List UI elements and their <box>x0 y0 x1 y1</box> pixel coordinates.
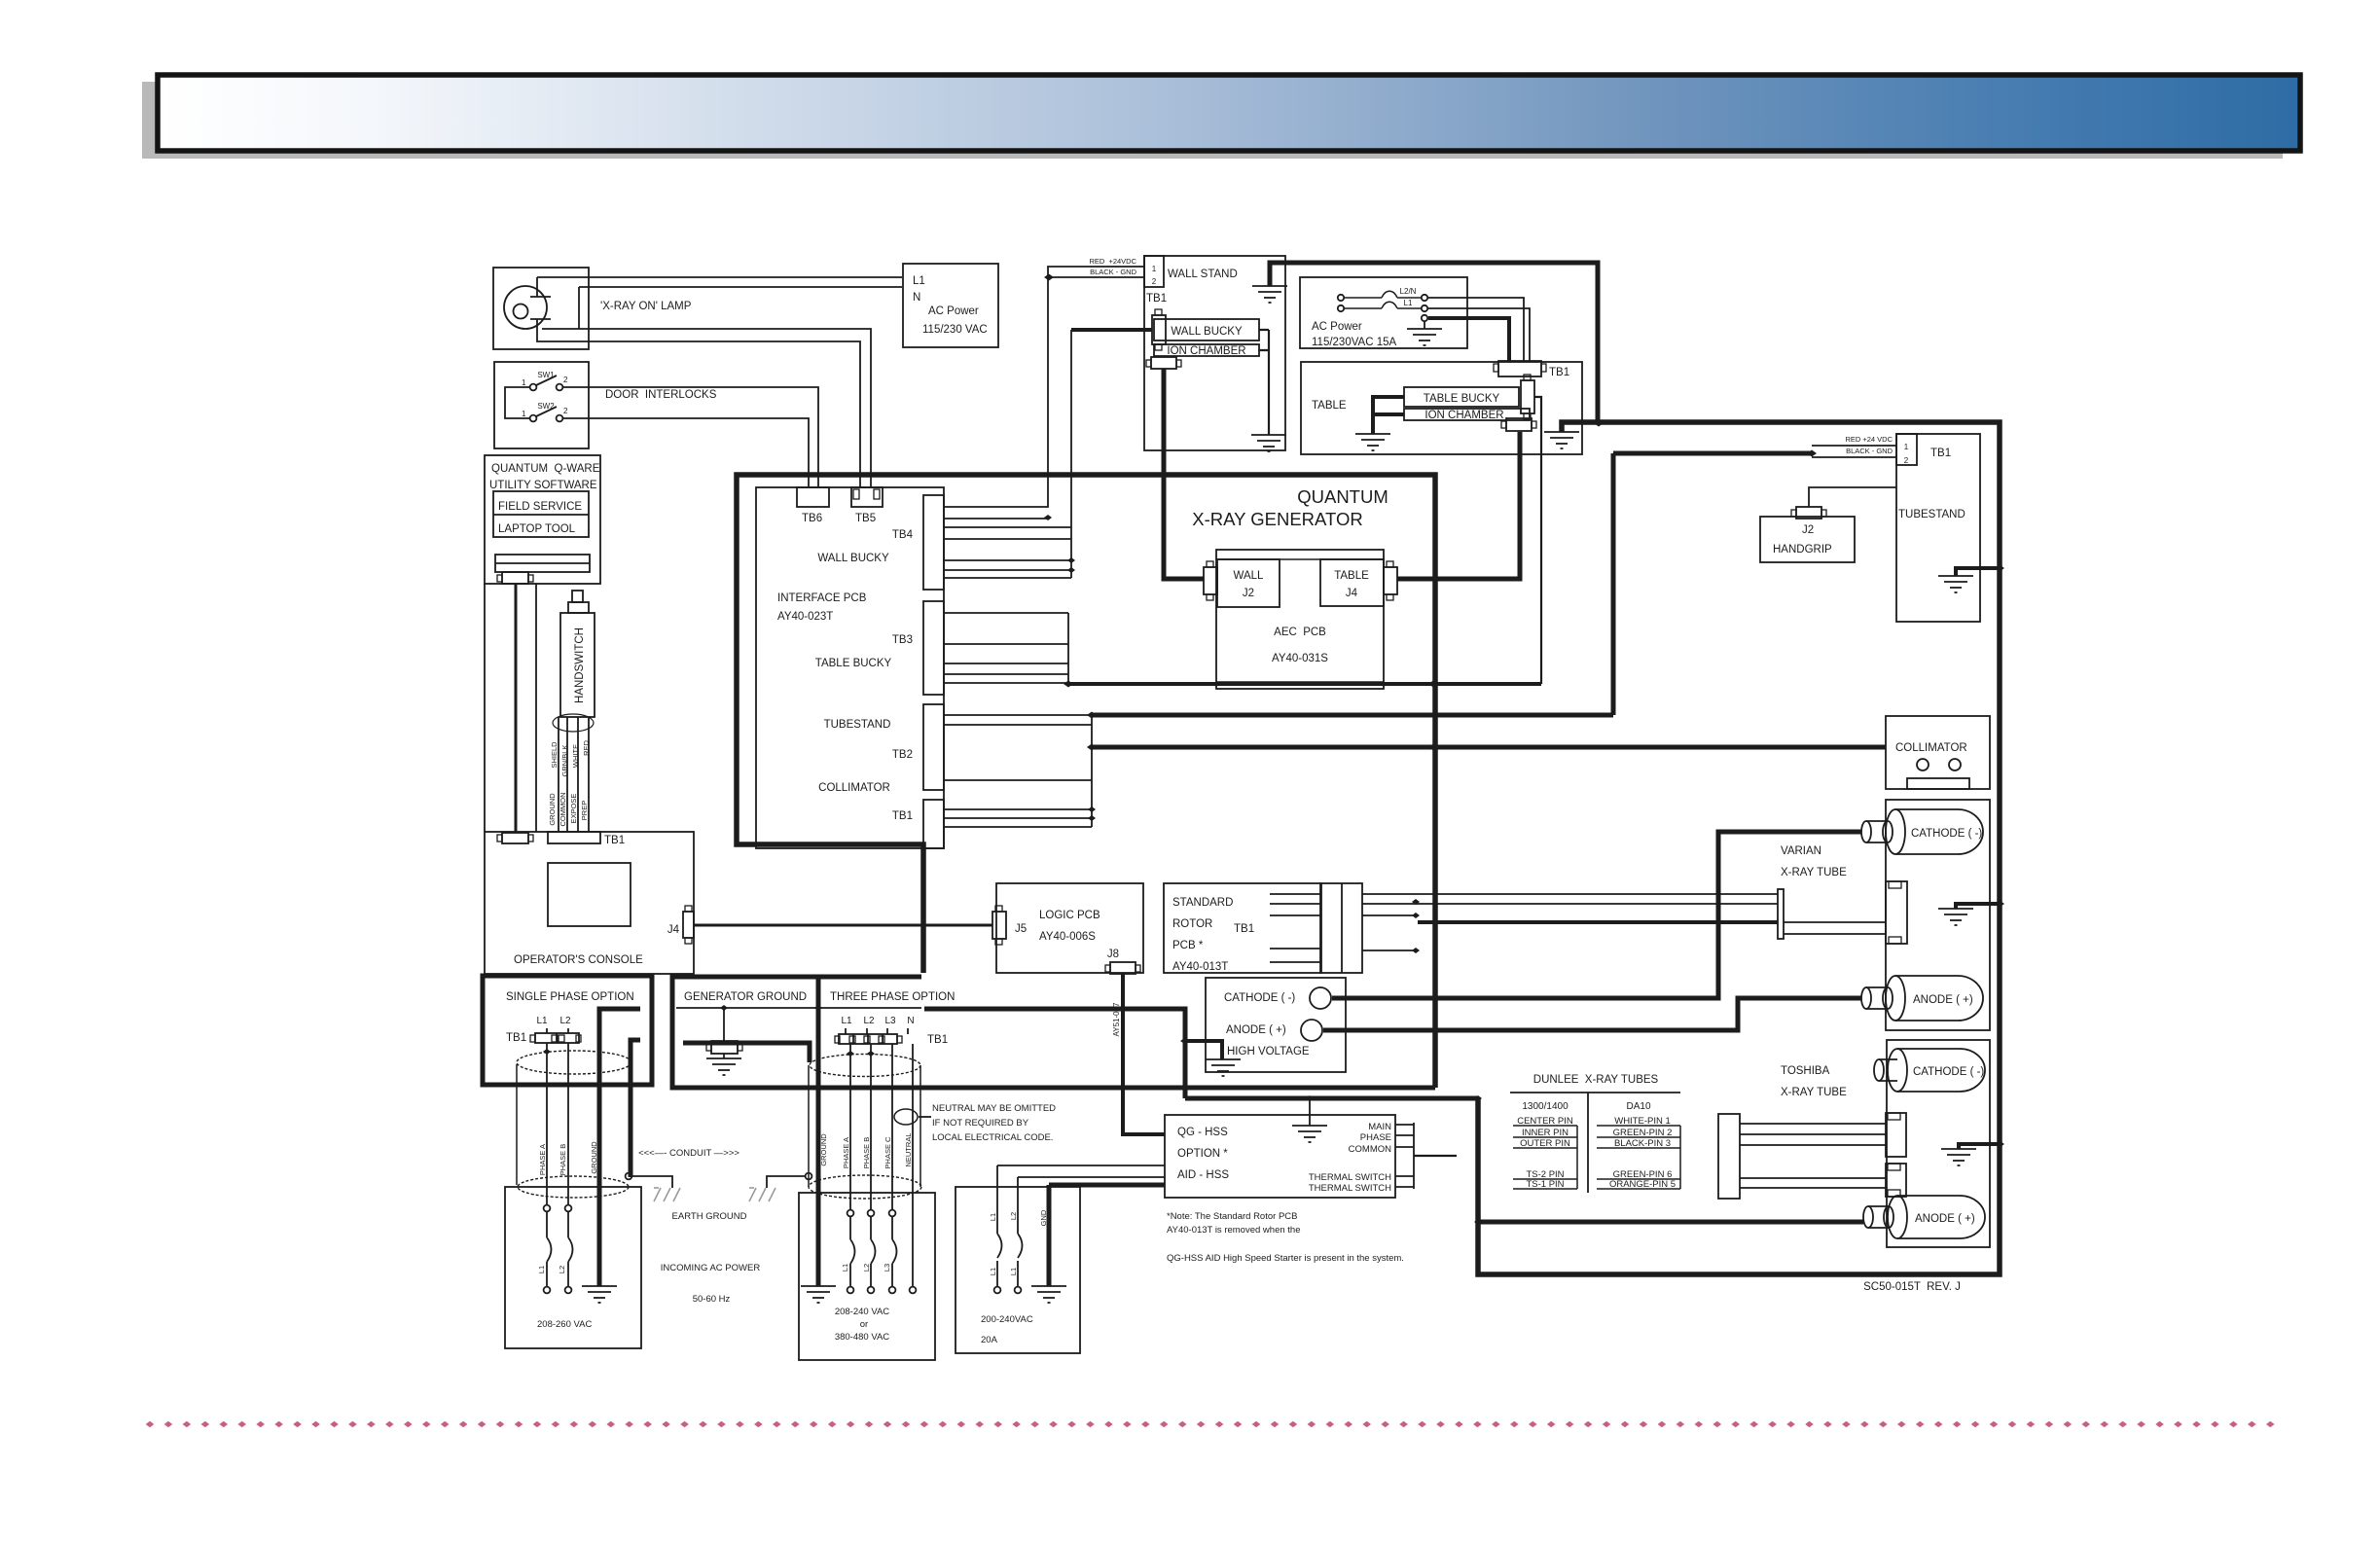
svg-text:L2/N: L2/N <box>1400 287 1417 296</box>
svg-text:ION CHAMBER: ION CHAMBER <box>1167 345 1245 357</box>
svg-text:TABLE BUCKY: TABLE BUCKY <box>1424 393 1500 405</box>
svg-text:STANDARD: STANDARD <box>1172 897 1233 909</box>
svg-text:AY40-023T: AY40-023T <box>777 611 833 623</box>
svg-text:TB1: TB1 <box>1146 293 1167 305</box>
svg-text:20A: 20A <box>981 1335 998 1345</box>
svg-text:AY40-013T: AY40-013T <box>1172 961 1228 973</box>
svg-text:NEUTRAL MAY BE OMITTED: NEUTRAL MAY BE OMITTED <box>932 1103 1056 1114</box>
svg-text:CATHODE ( -): CATHODE ( -) <box>1224 992 1295 1004</box>
svg-text:WALL: WALL <box>1234 570 1264 582</box>
svg-text:L1: L1 <box>989 1268 997 1275</box>
svg-text:PHASE A: PHASE A <box>538 1144 547 1175</box>
svg-text:AEC PCB: AEC PCB <box>1274 627 1326 638</box>
svg-text:1300/1400: 1300/1400 <box>1522 1101 1569 1112</box>
svg-text:HANDSWITCH: HANDSWITCH <box>574 627 586 703</box>
svg-text:TB1: TB1 <box>1234 923 1254 935</box>
svg-text:HIGH VOLTAGE: HIGH VOLTAGE <box>1227 1046 1310 1057</box>
svg-text:L2: L2 <box>863 1016 875 1026</box>
svg-text:X-RAY TUBE: X-RAY TUBE <box>1781 1087 1847 1098</box>
svg-text:'X-RAY ON' LAMP: 'X-RAY ON' LAMP <box>600 301 692 312</box>
svg-text:AY51-017: AY51-017 <box>1112 1002 1121 1037</box>
svg-text:VARIAN: VARIAN <box>1781 845 1821 857</box>
svg-text:THERMAL SWITCH: THERMAL SWITCH <box>1309 1183 1391 1194</box>
svg-text:1: 1 <box>522 378 526 387</box>
svg-text:200-240VAC: 200-240VAC <box>981 1314 1033 1325</box>
svg-text:TB1: TB1 <box>604 835 625 846</box>
svg-text:SW2: SW2 <box>537 402 555 411</box>
svg-text:LAPTOP TOOL: LAPTOP TOOL <box>498 523 576 535</box>
svg-text:1: 1 <box>1152 265 1157 273</box>
svg-text:L2: L2 <box>862 1264 871 1272</box>
svg-text:TS-1 PIN: TS-1 PIN <box>1526 1179 1564 1190</box>
svg-text:TB3: TB3 <box>892 634 913 646</box>
svg-text:2: 2 <box>563 376 568 384</box>
svg-text:GROUND: GROUND <box>819 1133 828 1166</box>
svg-text:OUTER PIN: OUTER PIN <box>1520 1138 1570 1149</box>
svg-text:WHITE-PIN 1: WHITE-PIN 1 <box>1614 1116 1671 1127</box>
svg-text:LOCAL ELECTRICAL CODE.: LOCAL ELECTRICAL CODE. <box>932 1132 1053 1143</box>
svg-text:AID - HSS: AID - HSS <box>1177 1169 1229 1181</box>
svg-text:THERMAL SWITCH: THERMAL SWITCH <box>1309 1172 1391 1183</box>
svg-text:GRN/BLK: GRN/BLK <box>560 745 569 777</box>
svg-text:RED +24 VDC: RED +24 VDC <box>1845 435 1893 444</box>
svg-text:IF NOT REQUIRED BY: IF NOT REQUIRED BY <box>932 1118 1029 1129</box>
svg-text:EXPOSE: EXPOSE <box>569 794 578 824</box>
svg-text:2: 2 <box>563 407 568 415</box>
svg-text:PHASE C: PHASE C <box>883 1136 892 1169</box>
svg-text:50-60 Hz: 50-60 Hz <box>693 1294 731 1305</box>
svg-text:TABLE: TABLE <box>1334 570 1369 582</box>
svg-text:PHASE: PHASE <box>1360 1132 1391 1143</box>
svg-text:COLLIMATOR: COLLIMATOR <box>1895 742 1967 754</box>
svg-text:GROUND: GROUND <box>590 1141 598 1174</box>
svg-text:WALL BUCKY: WALL BUCKY <box>817 553 889 564</box>
svg-text:AY40-013T is removed when the: AY40-013T is removed when the <box>1167 1225 1300 1236</box>
svg-text:COMMON: COMMON <box>1349 1144 1391 1155</box>
svg-text:J4: J4 <box>667 924 680 936</box>
svg-text:INTERFACE PCB: INTERFACE PCB <box>777 592 867 604</box>
svg-text:GENERATOR GROUND: GENERATOR GROUND <box>684 991 807 1003</box>
svg-text:ANODE ( +): ANODE ( +) <box>1913 994 1973 1006</box>
svg-text:TOSHIBA: TOSHIBA <box>1781 1065 1830 1077</box>
svg-text:L2: L2 <box>1009 1212 1018 1220</box>
svg-text:GREEN-PIN 2: GREEN-PIN 2 <box>1613 1128 1673 1138</box>
svg-text:ROTOR: ROTOR <box>1172 918 1212 930</box>
svg-text:RED +24VDC: RED +24VDC <box>1089 257 1136 266</box>
svg-text:PHASE B: PHASE B <box>862 1137 871 1169</box>
svg-text:DUNLEE X-RAY TUBES: DUNLEE X-RAY TUBES <box>1533 1074 1659 1086</box>
svg-text:J5: J5 <box>1015 923 1027 935</box>
svg-text:*Note: The Standard Rotor PCB: *Note: The Standard Rotor PCB <box>1167 1211 1297 1222</box>
svg-text:OPTION *: OPTION * <box>1177 1148 1228 1160</box>
svg-text:J2: J2 <box>1802 524 1814 536</box>
svg-text:1: 1 <box>1904 443 1909 451</box>
svg-text:ANODE ( +): ANODE ( +) <box>1226 1024 1286 1036</box>
svg-text:BLACK - GND: BLACK - GND <box>1846 447 1893 455</box>
svg-text:ORANGE-PIN 5: ORANGE-PIN 5 <box>1609 1179 1676 1190</box>
svg-text:L1: L1 <box>913 275 925 287</box>
svg-text:<<<—- CONDUIT —>>>: <<<—- CONDUIT —>>> <box>638 1148 739 1159</box>
svg-text:L1: L1 <box>841 1016 852 1026</box>
svg-text:TABLE: TABLE <box>1312 400 1347 412</box>
svg-text:TB1: TB1 <box>1930 448 1951 459</box>
svg-text:PREP: PREP <box>580 801 589 820</box>
svg-text:AY40-006S: AY40-006S <box>1039 931 1096 943</box>
svg-text:AY40-031S: AY40-031S <box>1272 653 1328 664</box>
svg-text:PHASE A: PHASE A <box>842 1137 850 1168</box>
svg-text:or: or <box>860 1319 868 1330</box>
svg-text:QG-HSS AID High Speed Starter: QG-HSS AID High Speed Starter is present… <box>1167 1253 1404 1264</box>
svg-text:X-RAY GENERATOR: X-RAY GENERATOR <box>1192 509 1362 529</box>
svg-text:COLLIMATOR: COLLIMATOR <box>818 782 890 794</box>
svg-text:380-480 VAC: 380-480 VAC <box>835 1332 889 1343</box>
svg-text:DA10: DA10 <box>1626 1101 1650 1112</box>
svg-text:L1: L1 <box>989 1213 997 1221</box>
svg-text:INCOMING AC POWER: INCOMING AC POWER <box>661 1263 761 1273</box>
svg-text:208-240 VAC: 208-240 VAC <box>835 1307 889 1317</box>
svg-text:TABLE BUCKY: TABLE BUCKY <box>815 658 892 669</box>
svg-text:INNER PIN: INNER PIN <box>1522 1128 1569 1138</box>
svg-text:J8: J8 <box>1107 949 1119 960</box>
svg-text:TB6: TB6 <box>802 513 822 524</box>
svg-text:HANDGRIP: HANDGRIP <box>1773 544 1832 555</box>
svg-text:RED: RED <box>582 740 591 756</box>
svg-text:TB1: TB1 <box>927 1034 948 1046</box>
svg-text:TB4: TB4 <box>892 529 914 541</box>
svg-text:PHASE B: PHASE B <box>559 1144 567 1176</box>
svg-text:THREE PHASE OPTION: THREE PHASE OPTION <box>830 991 955 1003</box>
svg-text:GROUND: GROUND <box>548 793 557 826</box>
svg-text:SC50-015T REV. J: SC50-015T REV. J <box>1863 1281 1961 1293</box>
svg-text:BLACK-PIN 3: BLACK-PIN 3 <box>1614 1138 1671 1149</box>
svg-text:L1: L1 <box>841 1264 849 1272</box>
svg-text:L1: L1 <box>1009 1268 1018 1275</box>
svg-text:WHITE: WHITE <box>571 744 580 768</box>
svg-text:N: N <box>907 1016 914 1026</box>
svg-text:J2: J2 <box>1243 588 1254 599</box>
svg-text:QUANTUM Q-WARE: QUANTUM Q-WARE <box>491 463 600 475</box>
svg-text:2: 2 <box>1152 277 1157 286</box>
svg-text:CATHODE ( -): CATHODE ( -) <box>1911 828 1982 840</box>
svg-text:1: 1 <box>522 410 526 418</box>
svg-text:BLACK - GND: BLACK - GND <box>1090 268 1137 276</box>
svg-text:N: N <box>913 292 920 304</box>
svg-text:CATHODE ( -): CATHODE ( -) <box>1913 1066 1984 1078</box>
svg-text:L2: L2 <box>558 1266 566 1273</box>
svg-text:OPERATOR'S CONSOLE: OPERATOR'S CONSOLE <box>514 954 643 966</box>
svg-text:NEUTRAL: NEUTRAL <box>904 1132 913 1166</box>
svg-text:PCB *: PCB * <box>1172 940 1204 951</box>
svg-text:2: 2 <box>1904 456 1909 465</box>
svg-text:TB1: TB1 <box>1549 367 1569 378</box>
svg-text:DOOR INTERLOCKS: DOOR INTERLOCKS <box>605 389 717 401</box>
svg-text:AC Power: AC Power <box>1312 321 1362 333</box>
svg-text:L1: L1 <box>1404 299 1413 307</box>
svg-text:L3: L3 <box>883 1264 891 1272</box>
svg-text:AC Power: AC Power <box>928 305 979 317</box>
svg-text:L1: L1 <box>537 1266 546 1273</box>
svg-text:SW1: SW1 <box>537 371 555 379</box>
svg-text:TUBESTAND: TUBESTAND <box>824 719 891 731</box>
svg-text:TB1: TB1 <box>892 810 913 822</box>
svg-text:115/230VAC 15A: 115/230VAC 15A <box>1312 337 1396 348</box>
svg-text:WALL STAND: WALL STAND <box>1168 269 1238 280</box>
svg-text:UTILITY SOFTWARE: UTILITY SOFTWARE <box>489 480 597 491</box>
svg-text:TB2: TB2 <box>892 749 913 761</box>
svg-text:QUANTUM: QUANTUM <box>1297 486 1388 507</box>
svg-text:SHIELD: SHIELD <box>550 741 559 769</box>
svg-text:ANODE ( +): ANODE ( +) <box>1915 1213 1975 1225</box>
svg-text:L1: L1 <box>536 1016 548 1026</box>
svg-text:LOGIC PCB: LOGIC PCB <box>1039 910 1100 921</box>
svg-text:115/230 VAC: 115/230 VAC <box>922 324 988 336</box>
svg-text:TB5: TB5 <box>855 513 876 524</box>
svg-text:208-260 VAC: 208-260 VAC <box>537 1319 592 1330</box>
svg-text:GND: GND <box>1039 1209 1048 1226</box>
svg-text:WALL BUCKY: WALL BUCKY <box>1171 326 1243 338</box>
svg-text:SINGLE PHASE OPTION: SINGLE PHASE OPTION <box>506 991 634 1003</box>
svg-text:FIELD SERVICE: FIELD SERVICE <box>498 501 582 513</box>
svg-text:MAIN: MAIN <box>1368 1122 1391 1132</box>
svg-text:J4: J4 <box>1346 588 1358 599</box>
svg-text:X-RAY TUBE: X-RAY TUBE <box>1781 867 1847 878</box>
svg-text:TB1: TB1 <box>506 1032 526 1044</box>
svg-text:COMMON: COMMON <box>559 793 567 827</box>
svg-text:ION CHAMBER: ION CHAMBER <box>1424 410 1503 421</box>
svg-text:L3: L3 <box>884 1016 896 1026</box>
svg-text:EARTH GROUND: EARTH GROUND <box>672 1211 747 1222</box>
svg-text:L2: L2 <box>559 1016 571 1026</box>
svg-text:CENTER PIN: CENTER PIN <box>1517 1116 1573 1127</box>
svg-text:QG - HSS: QG - HSS <box>1177 1127 1228 1138</box>
svg-text:TUBESTAND: TUBESTAND <box>1898 509 1965 520</box>
